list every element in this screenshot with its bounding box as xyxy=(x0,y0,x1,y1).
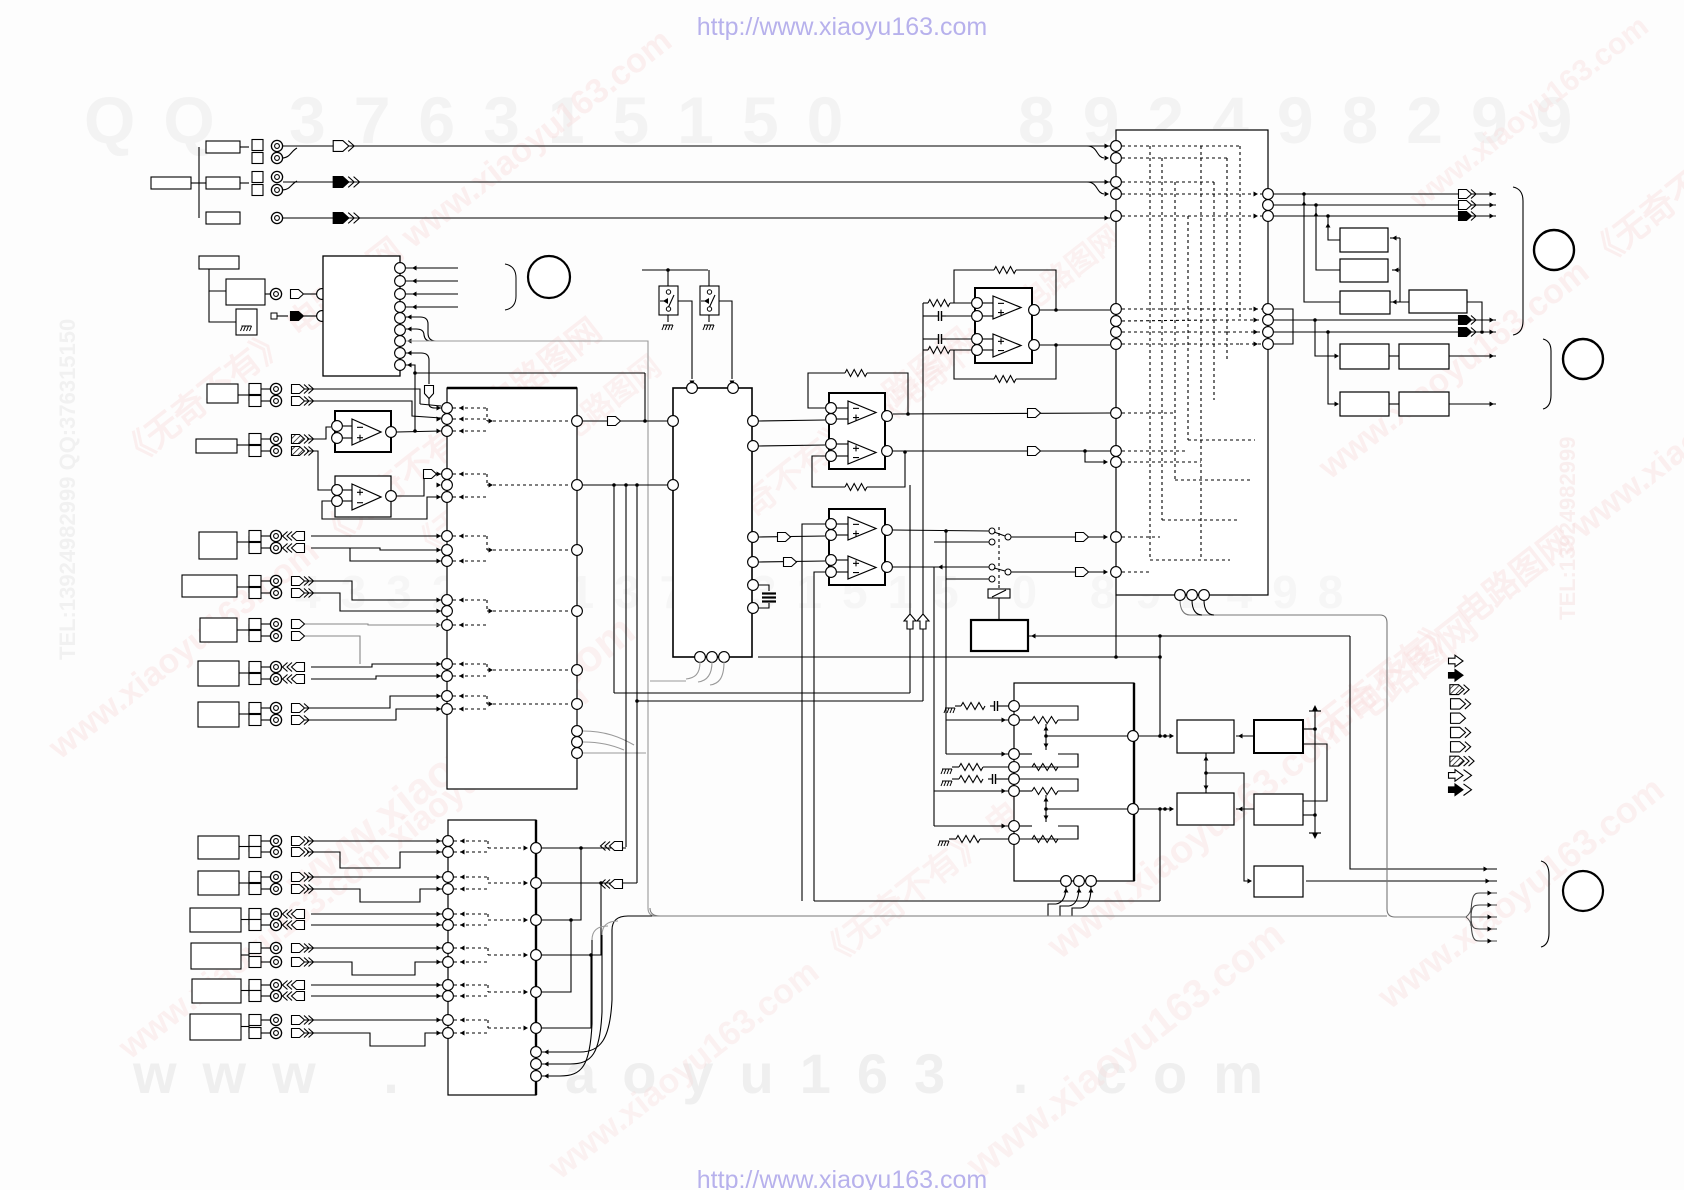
pin U2 right xyxy=(572,545,583,556)
connector J0 housing xyxy=(151,177,191,189)
junction xyxy=(599,881,603,885)
legend arrow xyxy=(1449,770,1472,782)
wire xyxy=(1467,302,1482,330)
wire dashed xyxy=(454,888,488,890)
connector J8 xyxy=(200,618,270,642)
wire xyxy=(837,418,848,420)
arrow open left xyxy=(601,880,623,889)
legend arrow pentchev xyxy=(1451,742,1471,752)
arrowhead xyxy=(1002,718,1007,723)
wire dashed xyxy=(454,995,488,997)
block servo A xyxy=(1177,720,1234,753)
ground xyxy=(703,325,714,330)
arrowhead xyxy=(1314,212,1319,217)
arrowhead xyxy=(489,548,494,553)
wire dashed xyxy=(1122,181,1214,183)
wire xyxy=(602,921,618,935)
junction xyxy=(1158,634,1162,638)
resistor xyxy=(1032,717,1058,724)
wire xyxy=(1303,744,1327,801)
wire xyxy=(1206,773,1251,881)
wire loop xyxy=(1020,826,1078,839)
wire xyxy=(1350,636,1497,869)
arrowhead xyxy=(1335,354,1340,359)
wire xyxy=(837,407,848,409)
pin U12 left xyxy=(443,920,454,931)
pin U3B out xyxy=(386,491,397,502)
pin U2 right xyxy=(572,737,583,748)
capacitor C3 xyxy=(762,594,776,602)
pin U11 right xyxy=(1263,327,1274,338)
block servo C xyxy=(1177,793,1234,825)
legend arrow hatchchev2 xyxy=(1450,756,1474,766)
wire fan xyxy=(1471,916,1497,918)
wire xyxy=(1274,331,1496,333)
wire xyxy=(946,719,1008,721)
legend arrow chevtail xyxy=(1451,699,1471,709)
block antenna label xyxy=(199,256,239,269)
wire vertical xyxy=(933,791,935,826)
pin U4 right xyxy=(748,603,759,614)
pin U12 right xyxy=(531,987,542,998)
pin U11 right xyxy=(1263,304,1274,315)
wire xyxy=(983,338,993,340)
arrowhead xyxy=(437,548,442,553)
jack xyxy=(270,835,281,846)
arrow filled xyxy=(1459,328,1477,337)
arrowhead xyxy=(489,609,494,614)
wire xyxy=(893,530,989,531)
junction xyxy=(1313,318,1317,322)
wire dashed xyxy=(487,703,571,705)
pin U9 out2 xyxy=(1128,804,1139,815)
junction xyxy=(1326,214,1330,218)
wire xyxy=(983,315,993,317)
wire dashed xyxy=(1122,450,1188,452)
wire xyxy=(1056,886,1066,904)
wire dashed xyxy=(487,669,571,671)
arrowhead xyxy=(460,946,465,951)
arrowhead xyxy=(1254,342,1259,347)
wire vertical xyxy=(813,658,815,901)
wire xyxy=(406,317,436,341)
contact xyxy=(989,539,995,545)
wire xyxy=(1081,886,1091,908)
junction xyxy=(1163,807,1167,811)
jack xyxy=(270,942,281,953)
jack xyxy=(270,542,281,553)
wire xyxy=(1048,904,1056,916)
pin U4 bottom xyxy=(719,652,730,663)
IC U1 video decoder xyxy=(323,256,400,376)
arrowhead xyxy=(1490,203,1495,208)
pin U7A in- xyxy=(826,519,837,530)
contact xyxy=(989,564,995,570)
junction xyxy=(1326,330,1330,334)
junction xyxy=(1204,771,1208,775)
ground xyxy=(941,769,952,774)
wire xyxy=(307,876,442,878)
wire xyxy=(644,373,646,421)
wire xyxy=(998,598,1000,620)
wire xyxy=(923,302,928,304)
op-amp U7 box xyxy=(829,509,885,585)
wire xyxy=(678,301,692,379)
wire dashed xyxy=(487,914,489,920)
wire dashed xyxy=(1122,215,1262,217)
wire bracket xyxy=(1274,309,1293,344)
arrowhead xyxy=(437,674,442,679)
pin U6B in- xyxy=(826,451,837,462)
wire xyxy=(305,624,441,625)
arrowhead xyxy=(437,960,442,965)
arrowhead xyxy=(1044,744,1049,749)
arrowhead xyxy=(437,923,442,928)
arrow open xyxy=(784,558,797,567)
arrow openchev xyxy=(292,716,310,725)
wire xyxy=(1315,320,1337,356)
wire xyxy=(1045,724,1047,750)
arrowhead xyxy=(938,565,943,570)
arrowhead xyxy=(1002,752,1007,757)
wire dashed xyxy=(1227,331,1262,333)
wire xyxy=(307,852,442,868)
arrowhead xyxy=(460,887,465,892)
pin U11 mid left xyxy=(1111,316,1122,327)
op-amp U3A box xyxy=(335,411,391,452)
wire dashed xyxy=(487,841,489,848)
resistor R9 xyxy=(959,776,983,783)
pin U2 right xyxy=(572,699,583,710)
wire xyxy=(542,920,571,992)
pin U12 left xyxy=(443,943,454,954)
wire xyxy=(1139,735,1171,737)
block U10 system control xyxy=(971,620,1028,651)
arrowhead xyxy=(437,946,442,951)
pin U11 mid left xyxy=(1111,327,1122,338)
pin U2 right xyxy=(572,726,583,737)
legend arrow xyxy=(1449,655,1464,667)
wire xyxy=(305,389,420,404)
pin U3A in+ xyxy=(332,433,343,444)
arrow openchev2 xyxy=(283,663,305,672)
wire xyxy=(191,182,206,184)
pin U2 right xyxy=(572,606,583,617)
arrowhead xyxy=(544,1050,549,1055)
wire xyxy=(583,752,646,754)
arrowhead xyxy=(1392,236,1397,241)
junction xyxy=(944,529,948,533)
wire xyxy=(759,420,825,421)
wire xyxy=(1274,193,1496,195)
pin U2 right xyxy=(572,665,583,676)
capacitor C4 xyxy=(990,701,1002,711)
junction xyxy=(1054,343,1058,347)
jack xyxy=(270,383,281,394)
arrow openchev2 xyxy=(292,589,314,598)
wire xyxy=(311,995,442,997)
wire dashed xyxy=(453,535,487,537)
pin U9 bottom xyxy=(1061,876,1072,887)
pin U9 left xyxy=(1009,774,1020,785)
wire dashed xyxy=(488,882,530,884)
arrowhead xyxy=(459,559,464,564)
arrowhead xyxy=(437,662,442,667)
wire xyxy=(350,548,441,561)
wire dashed xyxy=(1122,308,1201,310)
pin U1 xyxy=(395,336,406,347)
wire xyxy=(583,420,667,422)
pin U1 in2 xyxy=(317,311,328,322)
arrowhead xyxy=(489,668,494,673)
arrowhead xyxy=(1104,535,1109,540)
jack J2-B xyxy=(271,184,282,195)
wire xyxy=(311,548,441,550)
wire dashed xyxy=(1122,157,1227,159)
wire dashed xyxy=(486,696,488,704)
wire xyxy=(1303,814,1315,816)
wire xyxy=(542,883,601,955)
wire xyxy=(542,935,602,1064)
wire dashed xyxy=(488,847,530,849)
wire xyxy=(983,766,1008,768)
pin U9 bottom xyxy=(1074,876,1085,887)
brace xyxy=(650,908,660,916)
pin U1 xyxy=(395,302,406,313)
wire xyxy=(923,315,934,317)
arrowhead xyxy=(1254,307,1259,312)
resistor R7 xyxy=(961,703,985,710)
jack tuner out xyxy=(270,288,281,299)
wire loop xyxy=(1020,826,1078,839)
pin U2 left xyxy=(442,469,453,480)
pad xyxy=(271,313,277,319)
wire xyxy=(612,916,652,930)
wire xyxy=(1040,309,1110,311)
jack xyxy=(270,1014,281,1025)
wire xyxy=(1449,355,1496,357)
wire xyxy=(983,349,993,351)
arrowhead xyxy=(1335,402,1340,407)
arrowhead xyxy=(1254,214,1259,219)
wire xyxy=(311,676,441,679)
pin U7B in+ xyxy=(826,555,837,566)
pin U9 left xyxy=(1009,786,1020,797)
wire vertical xyxy=(945,720,947,754)
resistor R10 xyxy=(956,836,980,843)
jack xyxy=(270,661,281,672)
arrowhead xyxy=(1064,888,1069,893)
wire xyxy=(946,578,989,580)
jack xyxy=(270,433,281,444)
arrowhead xyxy=(524,846,529,851)
wire dashed xyxy=(454,924,488,926)
arrowhead xyxy=(437,623,442,628)
arrow openchev2 xyxy=(292,1016,314,1025)
junction xyxy=(1044,734,1048,738)
pin U2 left xyxy=(442,671,453,682)
op-amp U3A xyxy=(352,419,381,445)
wire dashed xyxy=(1122,461,1201,463)
wire xyxy=(542,882,637,884)
wire xyxy=(265,293,270,295)
arrowhead xyxy=(1204,756,1209,761)
junction xyxy=(1158,655,1162,659)
wire dashed xyxy=(454,984,488,986)
wire xyxy=(305,636,360,664)
jack xyxy=(270,990,281,1001)
wire xyxy=(636,485,638,883)
wire dashed xyxy=(453,430,487,432)
wire xyxy=(240,182,249,184)
arrow filled xyxy=(1459,212,1477,221)
arrowhead xyxy=(437,609,442,614)
junction xyxy=(413,429,417,433)
arrowhead xyxy=(1486,879,1491,884)
IC U9 box xyxy=(1014,683,1134,881)
wire xyxy=(1085,451,1104,462)
arrow openchev2 xyxy=(292,873,314,882)
jack xyxy=(270,445,281,456)
pin U1 in1 xyxy=(317,289,328,300)
arrowhead xyxy=(1254,318,1259,323)
arrow openchev2 xyxy=(292,1029,314,1038)
connector J13 xyxy=(190,908,270,932)
wire loop xyxy=(1020,706,1078,720)
pin U7A in+ xyxy=(826,530,837,541)
pin U1 xyxy=(395,313,406,324)
jack xyxy=(270,1027,281,1038)
arrow openchev2 xyxy=(283,921,305,930)
arrow open down xyxy=(425,386,434,399)
wire xyxy=(1087,146,1104,158)
wire xyxy=(1306,880,1497,882)
pin U12 left xyxy=(443,909,454,920)
wire vertical xyxy=(801,658,803,901)
wire dashed xyxy=(487,877,489,883)
wire xyxy=(397,474,441,496)
wire dashed xyxy=(454,913,488,915)
arrowhead xyxy=(1392,300,1397,305)
arrowhead xyxy=(1044,816,1049,821)
wire xyxy=(1205,753,1207,793)
pin U3A in- xyxy=(332,421,343,432)
wire xyxy=(667,315,669,322)
arrowhead xyxy=(459,534,464,539)
resistor R8 xyxy=(959,764,983,771)
wire dashed xyxy=(1226,158,1228,360)
wire xyxy=(719,301,732,379)
arrow open xyxy=(1459,190,1477,199)
bracket video out xyxy=(1513,187,1523,335)
wire dashed xyxy=(453,560,487,562)
legend arrow hatch xyxy=(1450,685,1469,695)
connector J1 pin square B xyxy=(252,153,263,164)
arrow openchev2 xyxy=(283,675,305,684)
pin U4 bottom xyxy=(695,652,706,663)
arrowhead xyxy=(407,315,412,320)
pin U11 right xyxy=(1263,339,1274,350)
arrowhead xyxy=(437,472,442,477)
wire xyxy=(583,484,667,486)
wire loop xyxy=(1020,754,1078,767)
wire feedback xyxy=(954,270,994,303)
wire xyxy=(946,315,971,317)
arrowhead xyxy=(489,419,494,424)
arrowhead xyxy=(437,694,442,699)
capacitor C1 xyxy=(934,311,946,321)
wire vertical xyxy=(909,485,911,693)
arrowhead xyxy=(437,598,442,603)
wire xyxy=(893,566,989,568)
arrowhead xyxy=(1105,216,1110,221)
junction xyxy=(612,483,616,487)
wire dashed xyxy=(1214,319,1262,321)
pin U12 left xyxy=(443,872,454,883)
arrowhead xyxy=(437,406,442,411)
pin U11 xyxy=(1111,446,1122,457)
pin U12 right xyxy=(531,843,542,854)
pin U3B in- xyxy=(332,496,343,507)
arrow openchev2 xyxy=(292,397,314,406)
wire xyxy=(311,535,441,537)
resistor R4 xyxy=(928,347,950,354)
pin U12 left xyxy=(443,980,454,991)
arrowhead xyxy=(1490,318,1495,323)
pin U2 left xyxy=(442,545,453,556)
arrow open xyxy=(1459,201,1477,210)
arrowhead xyxy=(412,292,417,297)
wire xyxy=(311,913,442,915)
pin U5B out xyxy=(1029,340,1040,351)
arrow open xyxy=(1076,568,1089,577)
pin U12 out xyxy=(531,1059,542,1070)
jack xyxy=(270,673,281,684)
wire xyxy=(1316,205,1340,270)
wire dashed xyxy=(1240,343,1262,345)
ground box xyxy=(236,309,257,335)
svg-text:http://www.xiaoyu163.com: http://www.xiaoyu163.com xyxy=(697,1166,987,1190)
arrowhead xyxy=(1488,903,1493,908)
IC U12 rec selector xyxy=(448,820,536,1095)
wire loop xyxy=(1020,754,1078,767)
wire xyxy=(710,662,724,685)
wire dashed xyxy=(487,484,571,486)
wire xyxy=(837,455,848,457)
wire dashed xyxy=(1239,146,1241,320)
wire xyxy=(759,603,769,608)
power tap xyxy=(1309,705,1321,711)
connector J15 xyxy=(192,979,270,1003)
arrowhead xyxy=(437,417,442,422)
arrowhead xyxy=(407,339,412,344)
arrowhead xyxy=(489,483,494,488)
connector J5 xyxy=(196,434,270,457)
arrowhead xyxy=(524,918,529,923)
ground xyxy=(241,326,252,331)
pin U4 top1 xyxy=(687,383,698,394)
jack xyxy=(270,714,281,725)
wire dashed xyxy=(1200,146,1202,560)
arrowhead xyxy=(437,534,442,539)
pin U11 xyxy=(1111,408,1122,419)
bracket fan brace xyxy=(1466,908,1471,926)
wire xyxy=(1020,719,1032,721)
wire xyxy=(542,848,581,920)
wire xyxy=(946,753,1008,755)
connector circle P1 xyxy=(528,256,570,298)
arrowhead xyxy=(1105,192,1110,197)
